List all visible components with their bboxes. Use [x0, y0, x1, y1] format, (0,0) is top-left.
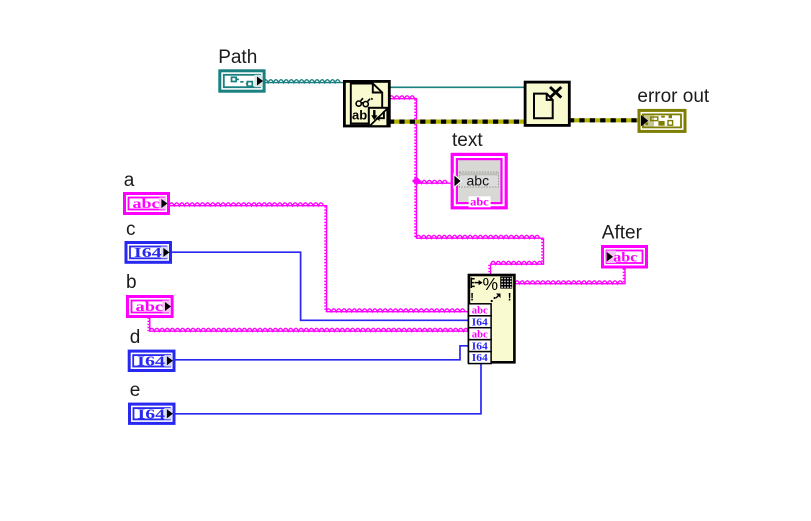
svg-text:a: a: [124, 170, 135, 191]
svg-text:abc: abc: [133, 196, 160, 211]
svg-text:abc: abc: [472, 304, 488, 316]
wire: d control to format node row4 (blue): [174, 346, 469, 360]
svg-text:!: !: [508, 292, 512, 304]
svg-text:After: After: [602, 222, 643, 243]
svg-text:c: c: [126, 219, 136, 240]
svg-text:d: d: [130, 327, 141, 348]
wire: c control to format node row2 (blue): [170, 252, 469, 320]
svg-text:Path: Path: [218, 47, 257, 68]
wire: b control to format node row3 (pink): [148, 317, 469, 331]
text string indicator (icon terminal): [452, 154, 506, 208]
wire: junction branch to text indicator (pink): [417, 180, 453, 183]
e I64 control terminal: [130, 404, 175, 423]
svg-text:abc: abc: [613, 249, 637, 264]
After string indicator terminal: [603, 247, 647, 268]
svg-text:abc: abc: [470, 196, 489, 208]
svg-text:!: !: [470, 292, 474, 304]
svg-text:abc: abc: [136, 299, 164, 314]
closer icon: Close File: [525, 82, 569, 125]
wire: closer error out to error out indicator (olive dashed): [569, 118, 638, 122]
svg-text:text: text: [452, 130, 483, 151]
d I64 control terminal: [129, 351, 174, 370]
junction dot on string wire: [412, 177, 421, 186]
a string control terminal: [125, 194, 169, 214]
error out indicator terminal: [639, 110, 685, 131]
svg-text:%: %: [483, 274, 499, 294]
wire: reader refnum to closer (teal solid): [389, 86, 525, 88]
svg-text:I64: I64: [472, 352, 489, 364]
svg-text:I64: I64: [134, 245, 162, 260]
svg-text:e: e: [130, 380, 141, 401]
wire: format node output to After indicator (pink): [515, 268, 626, 284]
svg-text:I64: I64: [472, 340, 489, 352]
svg-text:I64: I64: [137, 353, 165, 368]
svg-text:ab: ab: [352, 108, 367, 123]
Format Into String node: [469, 274, 515, 364]
svg-text:I64: I64: [138, 406, 166, 421]
wire: e control to format node row5 (blue): [174, 362, 481, 414]
c I64 control terminal: [126, 243, 171, 263]
b string control terminal: [128, 297, 173, 317]
reader icon: Read from Text File: [344, 81, 389, 126]
wire: string out of reader to junction / format node (pink): [389, 96, 544, 276]
svg-text:error out: error out: [637, 86, 710, 107]
wire: reader error to closer (olive dashed): [389, 119, 525, 123]
svg-text:abc: abc: [467, 173, 490, 189]
svg-text:b: b: [126, 272, 137, 293]
wire: a control to format node row1 (pink): [169, 203, 469, 312]
wire: Path control to reader (path, teal zigzag): [263, 80, 344, 83]
svg-text:I64: I64: [472, 316, 489, 328]
svg-text:abc: abc: [472, 328, 488, 340]
Path control terminal: [220, 71, 264, 91]
